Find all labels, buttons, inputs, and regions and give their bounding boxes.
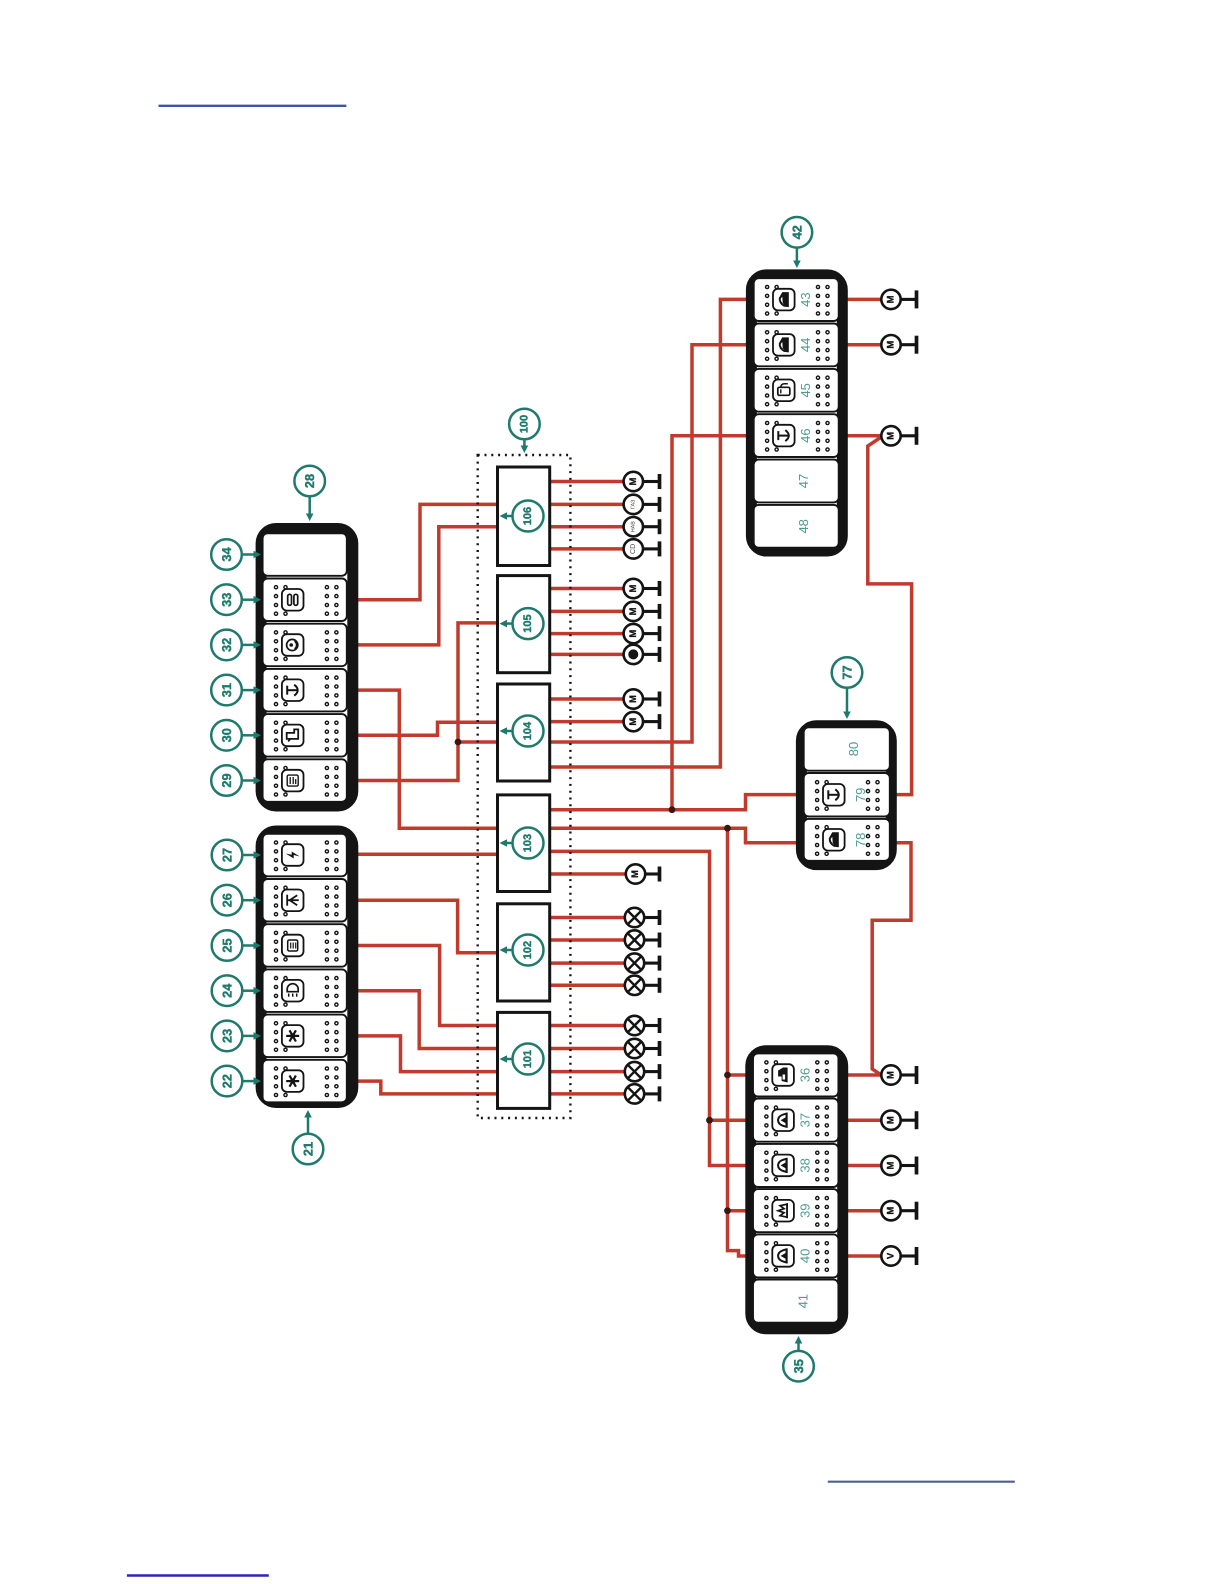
hyperlink rule bottom right — [828, 1481, 1015, 1483]
svg-text:M: M — [628, 695, 639, 703]
motor M block105 c — [624, 624, 660, 643]
wire block 104 output 2 — [549, 720, 624, 724]
callout 25 — [212, 930, 261, 961]
wire S22 to block 101 input 4 — [356, 1081, 499, 1094]
callout 33 — [211, 584, 261, 615]
callout 26 — [212, 885, 261, 916]
motor M block106 — [624, 472, 660, 491]
callout 100 — [509, 409, 540, 453]
wire block 106 output 3 — [549, 525, 624, 529]
wire switch 40 to voltmeter — [847, 1254, 881, 1258]
switch position 27 — [263, 834, 347, 877]
svg-text:100: 100 — [518, 415, 530, 433]
junction at switch 39 branch — [724, 1207, 731, 1214]
motor M block105 a — [624, 579, 660, 598]
svg-text:M: M — [628, 477, 639, 485]
wire block 105 output 2 — [549, 610, 624, 614]
motor M block104 a — [624, 689, 660, 708]
switch position 40 — [753, 1234, 838, 1277]
wire block 102 output 1 to lamp — [549, 916, 625, 920]
svg-text:37: 37 — [798, 1113, 813, 1127]
wire block 106 output 2 — [549, 503, 624, 507]
wire block 102 output 3 to lamp — [549, 961, 625, 965]
callout 34 — [211, 539, 261, 570]
CD player circle — [624, 539, 660, 558]
motor M block103 — [626, 864, 660, 883]
svg-text:46: 46 — [798, 428, 813, 442]
wire switch 43 to motor — [847, 298, 882, 302]
callout 35 — [783, 1336, 814, 1381]
switch position 45 — [754, 369, 839, 412]
rocker switch panel 28 housing — [261, 529, 353, 807]
svg-text:44: 44 — [798, 338, 813, 352]
switch position 33 — [263, 579, 347, 622]
rocker switch panel 77 housing — [801, 726, 891, 865]
wire S27 to block 103 input 2 — [356, 852, 499, 856]
aux circle nav — [624, 517, 660, 536]
svg-text:38: 38 — [798, 1158, 813, 1172]
relay block 104 — [498, 684, 550, 781]
wire block 102 output 2 to lamp — [549, 938, 625, 942]
wire block 104 output 1 — [549, 697, 624, 701]
switch position 24 — [263, 969, 347, 1012]
switch position 32 — [263, 624, 347, 667]
hyperlink rule bottom left — [127, 1574, 269, 1577]
svg-text:M: M — [630, 870, 641, 878]
switch position 80 — [804, 727, 890, 770]
svg-text:105: 105 — [522, 614, 534, 632]
relay block 106 — [498, 467, 550, 566]
wire block 105 output 4 to indicator — [549, 653, 624, 657]
wire switch 78 down to motor 36 loop — [872, 843, 911, 1075]
wire block 105 output 1 — [549, 587, 624, 591]
svg-text:79: 79 — [853, 788, 868, 802]
switch position 39 — [753, 1189, 838, 1232]
lamp L6 — [625, 1039, 660, 1058]
wire block 104 output 3 to switch 44 — [549, 345, 748, 742]
wire block 106 output 4 to CD — [549, 547, 624, 551]
lamp L3 — [625, 953, 660, 972]
callout 28 — [294, 466, 325, 521]
branch to switch 37 — [710, 1118, 748, 1122]
wire S30 to block 104 input 1 — [356, 722, 499, 735]
svg-text:M: M — [628, 607, 639, 615]
svg-text:40: 40 — [798, 1249, 813, 1263]
motor M switch46 — [881, 426, 916, 445]
switch position 25 — [263, 924, 347, 967]
lamp L4 — [625, 976, 660, 995]
svg-text:22: 22 — [220, 1074, 235, 1088]
svg-text:25: 25 — [220, 938, 235, 952]
wire S33 to block 106 input 1 — [356, 504, 499, 599]
svg-text:V: V — [886, 1252, 897, 1259]
wire block 104 output 4 to switch 43 — [549, 299, 748, 767]
svg-text:M: M — [628, 718, 639, 726]
svg-text:41: 41 — [796, 1294, 811, 1308]
voltmeter V switch40 — [881, 1246, 916, 1265]
wire S25 to block 101 input 1 — [356, 946, 499, 1026]
svg-text:102: 102 — [522, 941, 534, 959]
svg-text:106: 106 — [522, 507, 534, 525]
svg-text:27: 27 — [220, 848, 235, 862]
wire block 106 output 1 to motor M1 — [549, 480, 624, 484]
switch position 22 — [263, 1060, 347, 1103]
switch position 34 — [263, 533, 347, 576]
svg-text:26: 26 — [220, 893, 235, 907]
wire block 103 output 2 to switch 78 — [549, 828, 798, 843]
wire block 103 output 1 to switch 79 — [549, 795, 798, 810]
switch position 38 — [753, 1144, 838, 1187]
aux circle gas — [624, 495, 660, 514]
svg-text:M: M — [628, 584, 639, 592]
svg-text:M: M — [886, 1161, 897, 1169]
motor M switch37 — [881, 1111, 916, 1130]
svg-text:24: 24 — [220, 983, 235, 998]
switch position 46 — [754, 414, 839, 457]
svg-text:31: 31 — [219, 683, 234, 697]
svg-text:29: 29 — [219, 773, 234, 787]
svg-text:33: 33 — [219, 593, 234, 607]
switch position 48 — [754, 505, 839, 548]
svg-text:M: M — [886, 341, 897, 349]
switch position 31 — [263, 669, 347, 712]
lamp L2 — [625, 930, 660, 949]
wire switch 46 to motor — [847, 434, 882, 438]
wire block 102 output 4 to lamp — [549, 984, 625, 988]
motor M switch38 — [881, 1156, 916, 1175]
svg-text:ГАЗ: ГАЗ — [630, 500, 636, 509]
wire switch 39 to motor — [847, 1209, 881, 1213]
svg-text:43: 43 — [798, 292, 813, 306]
motor M switch36 — [881, 1065, 916, 1084]
switch position 30 — [263, 714, 347, 757]
relay unit 100 dotted boundary — [478, 455, 571, 1118]
callout 32 — [211, 630, 261, 661]
wire switch 44 to motor — [847, 343, 882, 347]
branch bus to switch 46 — [672, 436, 747, 810]
wire S24 to block 101 input 2 — [356, 991, 499, 1049]
junction at switch 37 branch — [706, 1117, 713, 1124]
switch position 44 — [754, 324, 839, 367]
svg-text:35: 35 — [791, 1359, 806, 1373]
switch position 78 — [804, 819, 890, 861]
switch position 29 — [263, 759, 347, 802]
wire S32 to block 106 input 2 — [356, 527, 499, 645]
indicator lamp filled — [624, 645, 660, 664]
callout 22 — [212, 1066, 261, 1097]
callout 42 — [782, 217, 813, 268]
wire block 103 output 3 bus to switches 37 38 — [549, 851, 748, 1165]
motor M switch43 — [881, 290, 916, 309]
switch position 79 — [804, 773, 890, 817]
wire block 103 output 4 to motor — [549, 872, 626, 876]
wire S23 to block 101 input 3 — [356, 1036, 499, 1072]
svg-text:M: M — [886, 432, 897, 440]
svg-text:39: 39 — [798, 1203, 813, 1217]
svg-text:77: 77 — [840, 665, 855, 679]
relay block 101 — [498, 1012, 550, 1108]
wire switch 37 to motor — [847, 1118, 881, 1122]
wire block 101 output 4 to lamp — [549, 1092, 625, 1096]
relay block 103 — [498, 795, 550, 892]
branch to switch 39 — [728, 1209, 748, 1213]
svg-text:36: 36 — [798, 1068, 813, 1082]
callout 31 — [211, 675, 261, 706]
wire S29 to block 105 and block 104 — [356, 623, 499, 781]
svg-text:M: M — [886, 1116, 897, 1124]
wire S31 to block 103 input 1 — [356, 690, 499, 828]
svg-text:28: 28 — [302, 474, 317, 488]
branch to switch 36 — [728, 1073, 748, 1077]
lamp L7 — [625, 1062, 660, 1081]
switch position 47 — [754, 460, 839, 503]
junction S29 branch to block 104 — [455, 739, 462, 746]
callout 24 — [212, 975, 261, 1006]
svg-text:42: 42 — [789, 225, 804, 239]
switch position 23 — [263, 1015, 347, 1058]
svg-text:47: 47 — [796, 474, 811, 488]
svg-text:101: 101 — [522, 1050, 534, 1068]
motor M switch39 — [881, 1201, 916, 1220]
callout 29 — [211, 765, 261, 796]
relay block 105 — [498, 576, 550, 673]
svg-text:104: 104 — [522, 721, 534, 740]
switch position 37 — [753, 1099, 838, 1142]
relay block 102 — [498, 904, 550, 1001]
svg-text:CD: CD — [630, 544, 637, 554]
svg-text:M: M — [886, 1207, 897, 1215]
switch position 43 — [754, 278, 839, 321]
lamp L1 — [625, 908, 660, 927]
wire block 101 output 1 to lamp — [549, 1024, 625, 1028]
switch position 26 — [263, 879, 347, 922]
wire block 101 output 3 to lamp — [549, 1070, 625, 1074]
svg-text:48: 48 — [796, 519, 811, 533]
callout 23 — [212, 1021, 261, 1052]
wire switch 36 to motor — [847, 1073, 881, 1077]
lamp L8 — [625, 1084, 660, 1103]
switch position 36 — [753, 1053, 838, 1096]
svg-text:78: 78 — [853, 833, 868, 847]
callout 77 — [832, 657, 863, 719]
wire switch 38 to motor — [847, 1164, 881, 1168]
junction bus 46 — [669, 806, 676, 813]
svg-text:M: M — [886, 1071, 897, 1079]
rocker switch panel 35 housing — [751, 1051, 843, 1329]
wire block 105 output 3 — [549, 632, 624, 636]
svg-text:НАВ: НАВ — [630, 521, 636, 532]
junction at switch 36 branch — [724, 1072, 731, 1079]
svg-text:30: 30 — [219, 728, 234, 742]
svg-text:M: M — [886, 295, 897, 303]
callout 27 — [212, 840, 261, 871]
svg-text:103: 103 — [522, 834, 534, 852]
svg-text:23: 23 — [220, 1029, 235, 1043]
callout 21 — [293, 1110, 324, 1164]
wire S26 to block 102 input — [356, 900, 499, 953]
wire block 101 output 2 to lamp — [549, 1047, 625, 1051]
motor M switch44 — [881, 335, 916, 354]
lamp L5 — [625, 1016, 660, 1035]
svg-text:21: 21 — [301, 1142, 316, 1156]
rocker switch panel 42 housing — [751, 275, 842, 551]
bus from junction 78-wire down to switches 36 39 40 — [728, 828, 748, 1256]
motor M block104 b — [624, 712, 660, 731]
wire switch 79 to motor 46 loop — [868, 437, 912, 795]
callout 30 — [211, 720, 261, 751]
svg-text:80: 80 — [846, 742, 861, 756]
switch position 41 — [753, 1280, 838, 1323]
svg-text:32: 32 — [219, 638, 234, 652]
svg-text:M: M — [628, 630, 639, 638]
svg-text:45: 45 — [798, 383, 813, 397]
junction bus 36-39-40 — [724, 825, 731, 832]
hyperlink rule top — [159, 105, 347, 107]
rocker switch panel 21 housing — [261, 831, 353, 1103]
svg-text:34: 34 — [219, 547, 234, 562]
motor M block105 b — [624, 602, 660, 621]
